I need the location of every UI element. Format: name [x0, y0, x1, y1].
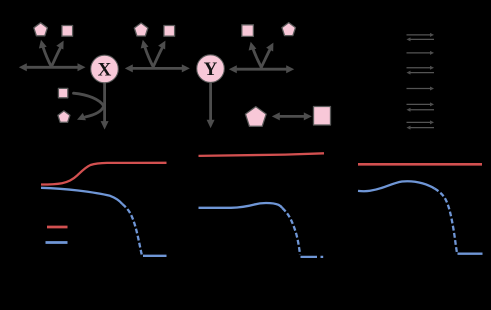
- svg-text:X: X: [98, 60, 112, 81]
- svg-text:Y: Y: [204, 59, 218, 80]
